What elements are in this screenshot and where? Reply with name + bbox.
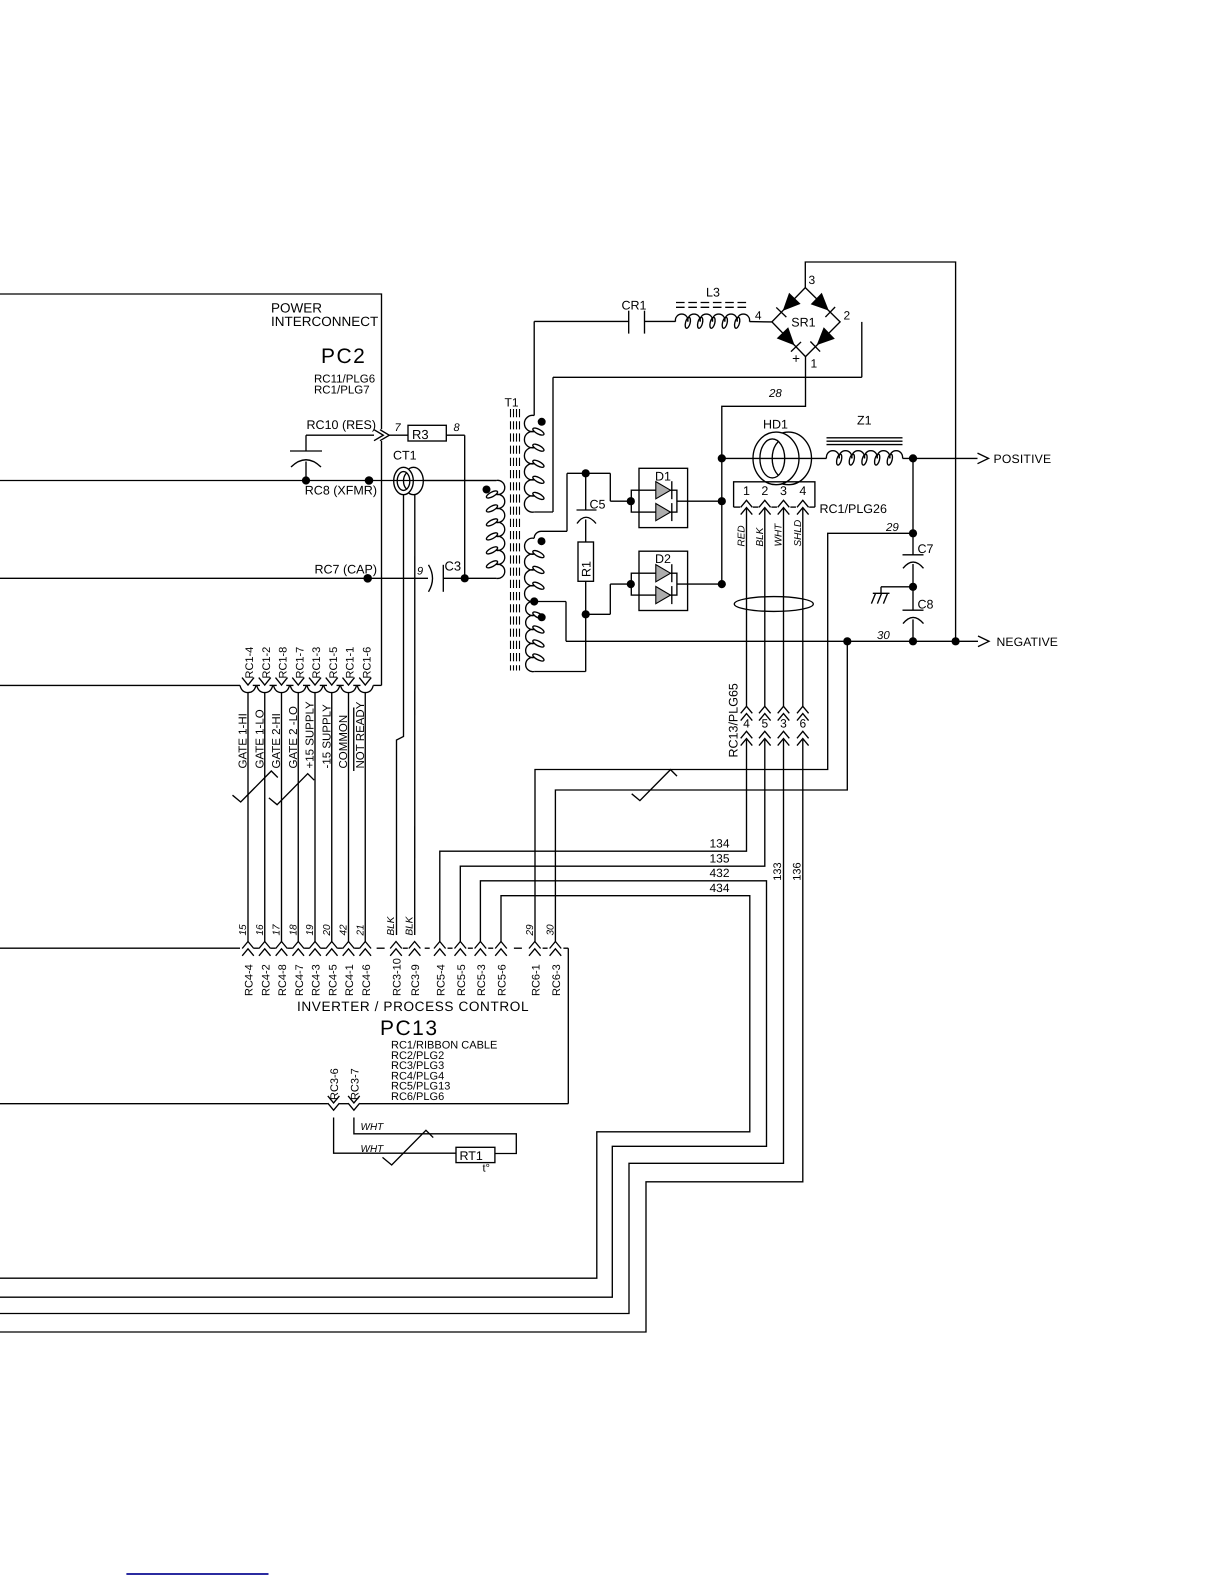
capacitor C5 xyxy=(585,473,587,510)
wire 434 xyxy=(0,896,750,1278)
capacitor C8 xyxy=(912,587,914,610)
svg-text:HD1: HD1 xyxy=(763,417,788,431)
svg-text:C3: C3 xyxy=(445,559,462,574)
connector pin RC1 at x=282 xyxy=(276,678,288,685)
svg-text:135: 135 xyxy=(710,852,730,866)
connector pin RC1 at x=348 xyxy=(343,678,355,685)
cable bundle ellipse xyxy=(734,597,813,612)
T1 primary winding xyxy=(496,480,505,578)
svg-text:RC5-5: RC5-5 xyxy=(456,964,468,996)
capacitor C7 xyxy=(912,533,914,555)
svg-text:4: 4 xyxy=(743,717,750,731)
slash over gate1 wires xyxy=(233,771,278,802)
svg-text:5: 5 xyxy=(761,717,768,731)
wire SR1 pin4 to L3 xyxy=(750,321,772,323)
svg-text:30: 30 xyxy=(877,630,890,642)
svg-text:RC1-5: RC1-5 xyxy=(328,647,340,679)
wire 134 xyxy=(440,740,747,942)
svg-text:7: 7 xyxy=(395,422,402,434)
wire R3 to C3 node xyxy=(446,434,464,436)
svg-text:29: 29 xyxy=(885,522,899,534)
svg-text:RC4-1: RC4-1 xyxy=(344,964,356,996)
junction at PC2 edge xyxy=(363,574,372,583)
svg-text:WHT: WHT xyxy=(774,523,785,547)
connector pin RC6-1 xyxy=(529,942,541,956)
svg-text:C7: C7 xyxy=(918,542,934,556)
svg-text:NOT READY: NOT READY xyxy=(355,701,367,768)
wire 133 xyxy=(0,740,784,1314)
wire 432 xyxy=(0,881,767,1297)
connector pin RC4-3 xyxy=(309,942,321,956)
svg-text:RC4-3: RC4-3 xyxy=(311,964,323,996)
wire RC3-7 to RT1 xyxy=(354,1118,516,1154)
svg-text:RC6/PLG6: RC6/PLG6 xyxy=(391,1091,444,1103)
svg-text:D1: D1 xyxy=(655,469,671,483)
wire RC8 (XFMR) xyxy=(0,480,496,482)
svg-text:D2: D2 xyxy=(655,552,671,566)
svg-text:1: 1 xyxy=(811,357,818,371)
wire 30 to RC6-3 xyxy=(555,641,847,941)
svg-text:28: 28 xyxy=(768,388,782,400)
svg-text:434: 434 xyxy=(710,881,730,895)
CT1 lead wires to PC13 xyxy=(397,495,404,936)
NEGATIVE bus xyxy=(566,640,978,642)
svg-text:RC3-7: RC3-7 xyxy=(349,1068,361,1100)
svg-text:RC4-8: RC4-8 xyxy=(277,964,289,996)
svg-text:19: 19 xyxy=(305,924,316,936)
POSITIVE terminal arrow xyxy=(978,453,989,464)
svg-text:15: 15 xyxy=(238,924,249,936)
svg-text:3: 3 xyxy=(809,273,816,287)
svg-text:RC4-2: RC4-2 xyxy=(260,964,272,996)
IC box PC13 INVERTER / PROCESS CONTROL xyxy=(0,947,240,949)
IC box PC2 POWER INTERCONNECT xyxy=(0,294,382,429)
svg-text:RC1-7: RC1-7 xyxy=(294,647,306,679)
svg-text:1: 1 xyxy=(743,484,750,498)
connector pin RC4-6 xyxy=(359,942,371,956)
thermistor slash xyxy=(383,1130,434,1165)
svg-text:18: 18 xyxy=(288,924,299,936)
svg-text:432: 432 xyxy=(710,866,730,880)
connector pin RC3-10 xyxy=(390,942,402,956)
SR1 diode top-left xyxy=(776,293,801,318)
connector RC13/PLG65 xyxy=(741,706,753,720)
svg-text:RC1-1: RC1-1 xyxy=(345,647,357,679)
junction C7/C8/ground xyxy=(909,583,917,591)
connector pin RC5-5 xyxy=(455,942,467,956)
phase dot sec bottom xyxy=(538,613,546,621)
SR1 diode top-right xyxy=(811,293,836,318)
svg-text:WHT: WHT xyxy=(361,1122,385,1133)
wire R1 bottom to D2 xyxy=(586,613,611,615)
connector pin RC5-3 xyxy=(475,942,487,956)
wire 136 xyxy=(0,740,803,1332)
svg-text:8: 8 xyxy=(454,422,461,434)
svg-text:RED: RED xyxy=(737,525,748,546)
svg-text:RC3-6: RC3-6 xyxy=(329,1068,341,1100)
D1 left junction xyxy=(627,497,635,505)
SR1 diode bottom-right xyxy=(810,327,835,352)
wire Z1 to POSITIVE xyxy=(903,457,978,459)
phase dot sec mid xyxy=(538,537,546,545)
connector pin RC6-3 xyxy=(550,942,562,956)
svg-text:RC10 (RES): RC10 (RES) xyxy=(307,418,376,432)
svg-text:6: 6 xyxy=(799,717,806,731)
svg-text:16: 16 xyxy=(255,924,266,936)
svg-text:9: 9 xyxy=(417,566,423,578)
svg-text:3: 3 xyxy=(780,484,787,498)
svg-text:t°: t° xyxy=(483,1163,490,1175)
connector RC10 chevrons xyxy=(374,430,389,441)
svg-text:C5: C5 xyxy=(590,498,606,512)
wire center tap to negative bus xyxy=(534,601,566,603)
junction R1 bottom xyxy=(582,610,590,618)
wire HD1 bus xyxy=(722,457,827,459)
svg-text:RC6-3: RC6-3 xyxy=(551,964,563,996)
svg-text:RC5-3: RC5-3 xyxy=(476,964,488,996)
connector pin RC4-2 xyxy=(259,942,271,956)
svg-text:29: 29 xyxy=(525,924,536,937)
junction 28/HD1 bus xyxy=(718,454,726,462)
connector pin RC4-5 xyxy=(326,942,338,956)
svg-text:RC1/PLG7: RC1/PLG7 xyxy=(314,385,370,397)
svg-text:NEGATIVE: NEGATIVE xyxy=(997,635,1059,649)
svg-text:3: 3 xyxy=(780,717,787,731)
NEGATIVE terminal arrow xyxy=(978,636,989,647)
connector pin RC4-1 xyxy=(343,942,355,956)
svg-text:RC3-9: RC3-9 xyxy=(410,964,422,996)
connector pin RC4-4 xyxy=(242,942,254,956)
wire 135 xyxy=(460,740,765,942)
gate wires xyxy=(247,693,249,942)
wire T1 top to CR1 xyxy=(534,320,629,322)
connector pin RC1 at x=248 xyxy=(242,678,254,685)
slash over gate2 wires xyxy=(269,774,314,805)
slash over 29/30 wires xyxy=(632,770,677,801)
SR1 diode bottom-left xyxy=(777,327,802,352)
svg-text:RC1-8: RC1-8 xyxy=(278,647,290,679)
svg-text:GATE 2 -LO: GATE 2 -LO xyxy=(288,706,300,768)
svg-text:GATE 1-LO: GATE 1-LO xyxy=(254,709,266,768)
T1 core xyxy=(510,409,512,671)
junction at PC2 edge xyxy=(365,476,374,485)
svg-text:GATE 1-HI: GATE 1-HI xyxy=(238,713,250,768)
dual diode D1 xyxy=(639,468,688,527)
capacitor C3 xyxy=(429,565,433,592)
connector pin RC3-7 xyxy=(348,1096,360,1110)
phase dot sec top xyxy=(538,418,546,426)
svg-text:RC1-3: RC1-3 xyxy=(311,647,323,679)
svg-text:RT1: RT1 xyxy=(460,1149,483,1163)
svg-text:RC4-5: RC4-5 xyxy=(327,964,339,996)
D1 right lead xyxy=(677,500,722,502)
svg-text:BLK: BLK xyxy=(755,526,766,546)
wire RC10 (RES) xyxy=(306,434,374,436)
connector pin RC4-7 xyxy=(292,942,304,956)
svg-text:BLK: BLK xyxy=(405,915,416,935)
D2 left junction xyxy=(627,580,635,588)
svg-text:136: 136 xyxy=(792,862,804,880)
phase dot primary xyxy=(483,486,491,494)
wire D1-D2 cathode bus xyxy=(721,458,723,584)
svg-text:RC13/PLG65: RC13/PLG65 xyxy=(727,683,741,757)
svg-text:WHT: WHT xyxy=(361,1144,385,1155)
svg-text:2: 2 xyxy=(761,484,768,498)
wire 29 to RC6-1 xyxy=(535,533,913,941)
capacitor on RC10 line xyxy=(305,435,307,451)
connector pin RC3-6 xyxy=(328,1096,340,1110)
T1 secondary bottom winding xyxy=(526,601,535,671)
wire mid-top lead to C5 node xyxy=(566,473,568,531)
connector pin RC3-9 xyxy=(409,942,421,956)
svg-text:RC1-6: RC1-6 xyxy=(361,647,373,679)
svg-text:SHLD: SHLD xyxy=(793,520,804,547)
T1 secondary middle winding xyxy=(542,530,568,532)
wire RC8 through CT1 xyxy=(394,480,497,482)
svg-text:133: 133 xyxy=(772,862,784,880)
connector pin RC1 at x=265 xyxy=(259,678,271,685)
cable wires RED BLK WHT SHLD xyxy=(746,508,748,706)
svg-text:INVERTER / PROCESS CONTROL: INVERTER / PROCESS CONTROL xyxy=(297,999,529,1014)
svg-text:+: + xyxy=(792,351,800,366)
resistor R1 xyxy=(578,542,594,581)
junction Z1/C7 xyxy=(909,454,917,462)
svg-text:RC3-10: RC3-10 xyxy=(392,958,404,996)
dual diode D2 xyxy=(639,551,688,610)
svg-text:4: 4 xyxy=(799,484,806,498)
wire RC3-6 to RT1 xyxy=(334,1118,456,1154)
svg-text:GATE 2-HI: GATE 2-HI xyxy=(271,713,283,768)
svg-text:RC6-1: RC6-1 xyxy=(530,964,542,996)
svg-text:RC8 (XFMR): RC8 (XFMR) xyxy=(305,484,377,498)
svg-text:RC5-4: RC5-4 xyxy=(435,964,447,996)
svg-text:30: 30 xyxy=(545,924,556,936)
connector pin RC5-6 xyxy=(495,942,507,956)
PC2 bottom edge xyxy=(0,684,240,686)
D2 right lead xyxy=(677,583,722,585)
connector pin RC1 at x=332 xyxy=(326,678,338,685)
wire sec-bottom lead to R1 node xyxy=(534,671,586,673)
svg-text:RC4-4: RC4-4 xyxy=(244,964,256,996)
svg-text:42: 42 xyxy=(339,924,350,936)
connector RC1/PLG26 xyxy=(734,482,815,507)
svg-text:R3: R3 xyxy=(412,427,429,442)
wire C5 node to D1 xyxy=(609,473,611,501)
connector pin RC4-8 xyxy=(276,942,288,956)
svg-text:PC13: PC13 xyxy=(380,1017,439,1040)
svg-text:CR1: CR1 xyxy=(622,299,647,313)
svg-text:RC1/PLG26: RC1/PLG26 xyxy=(820,502,887,516)
svg-text:INTERCONNECT: INTERCONNECT xyxy=(271,314,378,329)
wire 28 from SR1 to HD1 bus xyxy=(722,357,806,459)
svg-text:PC2: PC2 xyxy=(321,345,366,368)
svg-text:POSITIVE: POSITIVE xyxy=(994,452,1052,466)
wire SR1 pin3 to negative net xyxy=(805,262,955,641)
wire sec-top bottom lead to SR1 pin2 net xyxy=(552,377,554,512)
wire RC7 (CAP) xyxy=(0,577,428,579)
wire 29 node xyxy=(912,458,914,533)
blue underline mark xyxy=(126,1573,268,1575)
overline NOT READY xyxy=(353,708,355,772)
svg-text:RC1-4: RC1-4 xyxy=(244,647,256,679)
svg-text:RC5-6: RC5-6 xyxy=(497,964,509,996)
junction C5 top xyxy=(582,469,590,477)
svg-text:-15 SUPPLY: -15 SUPPLY xyxy=(321,704,333,769)
svg-text:Z1: Z1 xyxy=(857,414,872,428)
svg-text:SR1: SR1 xyxy=(791,315,815,329)
svg-text:4: 4 xyxy=(755,309,762,323)
svg-text:+15 SUPPLY: +15 SUPPLY xyxy=(305,701,317,769)
svg-text:20: 20 xyxy=(322,924,333,937)
connector pin RC5-4 xyxy=(434,942,446,956)
svg-text:134: 134 xyxy=(710,837,730,851)
junction xyxy=(302,476,310,484)
bridge rectifier SR1 xyxy=(772,288,840,357)
svg-text:COMMON: COMMON xyxy=(338,715,350,769)
chassis ground symbol xyxy=(881,586,913,588)
svg-text:RC4-7: RC4-7 xyxy=(294,964,306,996)
junction C3-R3 xyxy=(461,574,469,582)
thermistor RT1 xyxy=(456,1147,495,1162)
resistor R3 xyxy=(389,434,408,436)
svg-text:RC4-6: RC4-6 xyxy=(361,964,373,996)
svg-text:R1: R1 xyxy=(580,561,594,577)
T1 secondary top winding xyxy=(533,321,535,415)
svg-text:BLK: BLK xyxy=(386,915,397,935)
svg-text:L3: L3 xyxy=(706,286,720,300)
svg-text:C8: C8 xyxy=(918,598,934,612)
connector pin RC1 at x=298 xyxy=(292,678,304,685)
svg-text:17: 17 xyxy=(272,924,283,936)
connector pin RC1 at x=315 xyxy=(309,678,321,685)
svg-text:2: 2 xyxy=(844,309,851,323)
center tap junction xyxy=(530,597,538,605)
connector pin RC1 at x=365 xyxy=(359,678,371,685)
svg-text:T1: T1 xyxy=(505,396,519,410)
svg-text:RC1-2: RC1-2 xyxy=(261,647,273,679)
svg-text:21: 21 xyxy=(355,924,366,936)
svg-text:CT1: CT1 xyxy=(393,449,417,463)
